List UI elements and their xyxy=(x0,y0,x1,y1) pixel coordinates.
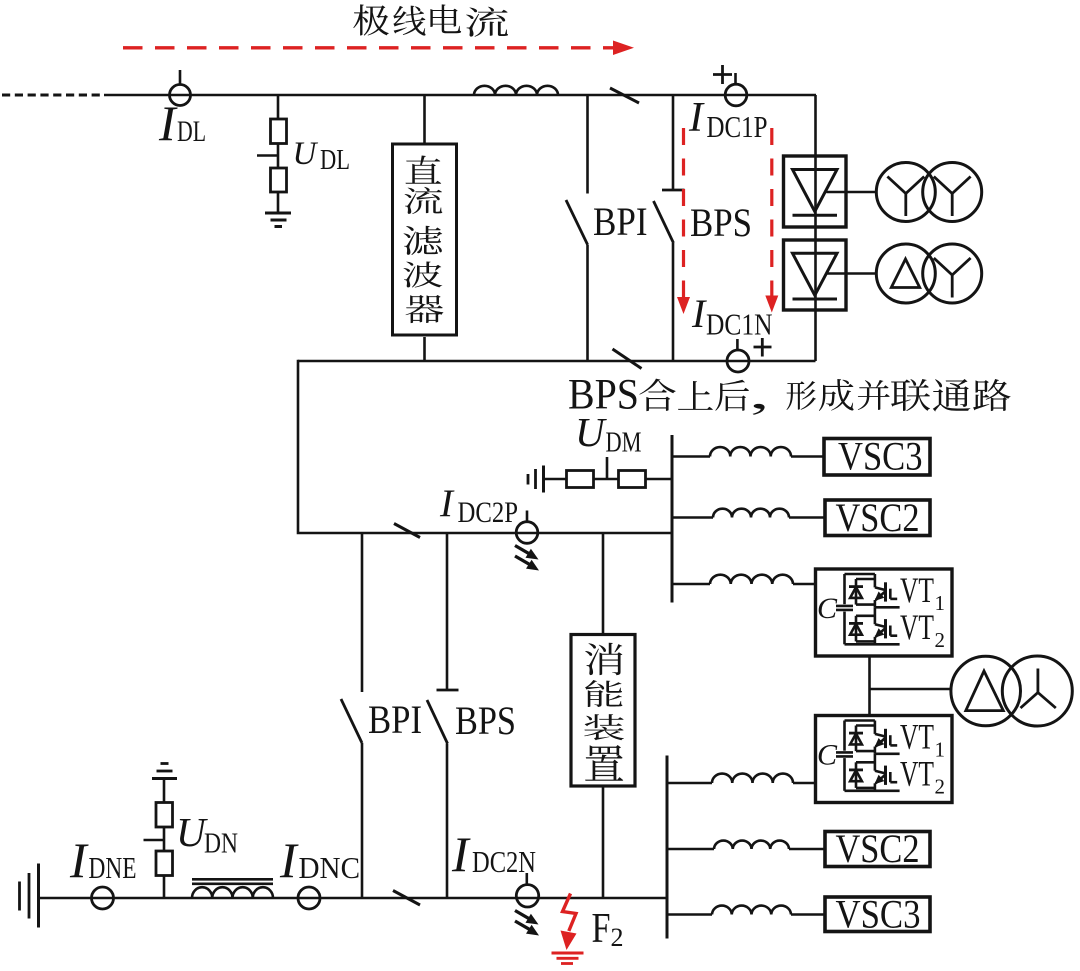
svg-text:VT: VT xyxy=(900,753,934,793)
label VT2 (lower) xyxy=(900,753,945,798)
svg-text:DC1P: DC1P xyxy=(707,109,768,144)
wire: converter DC pole vertical xyxy=(814,95,817,361)
svg-text:BPI: BPI xyxy=(593,199,648,244)
label IDC2N xyxy=(451,826,536,882)
svg-text:I: I xyxy=(158,95,178,151)
label BPS lower xyxy=(455,698,516,743)
svg-text:VSC2: VSC2 xyxy=(836,826,920,871)
phase reactor to VSC2 (lower) xyxy=(667,841,825,849)
svg-text:2: 2 xyxy=(935,628,946,652)
converter box VSC3 (upper) xyxy=(824,434,930,479)
red dashed arrow: bypass current path left xyxy=(677,128,690,314)
ground: neutral earth (left-facing) xyxy=(20,864,39,928)
converter transformer T2 (D/Y) xyxy=(876,244,981,303)
svg-text:C: C xyxy=(817,739,838,772)
caption: BPS closed forms parallel path xyxy=(568,372,1011,419)
svg-text:I: I xyxy=(691,291,707,336)
svg-text:DN: DN xyxy=(204,829,238,860)
current transducer IDC2N xyxy=(516,873,538,907)
svg-text:VSC3: VSC3 xyxy=(838,434,923,479)
bus: lower VSC pole xyxy=(666,756,669,939)
switch BPI upper xyxy=(566,95,588,361)
label IDNE xyxy=(69,832,137,888)
ground UDL xyxy=(265,213,291,227)
label BPS upper xyxy=(690,200,752,245)
svg-text:U: U xyxy=(293,136,319,172)
svg-text:VT: VT xyxy=(900,570,934,610)
current transducer IDL xyxy=(170,70,191,106)
disconnector slash (neutral bus) xyxy=(393,891,420,906)
ground UDM (left-facing) xyxy=(528,466,544,493)
label BPI lower xyxy=(368,697,422,742)
switch BPS lower xyxy=(427,533,459,898)
optical sensor arrows IDC2N xyxy=(515,911,539,936)
label IDNC xyxy=(279,832,360,888)
converter box VSC2 (upper) xyxy=(825,495,930,540)
svg-text:DNE: DNE xyxy=(89,850,137,885)
smoothing reactor (top line) xyxy=(474,86,558,95)
capacitor tap UDL xyxy=(257,154,278,157)
DC capacitor C (upper) xyxy=(817,592,853,625)
DC capacitor C (lower) xyxy=(817,739,853,772)
IGBT VT2 with antiparallel diode (upper) xyxy=(849,607,897,644)
svg-text:VT: VT xyxy=(900,607,934,647)
label IDC2P xyxy=(439,482,518,529)
svg-text:U: U xyxy=(575,409,607,455)
smoothing reactor (neutral, iron core) xyxy=(192,879,273,898)
DC rails (lower) xyxy=(845,721,900,791)
svg-text:DNC: DNC xyxy=(299,850,361,885)
wire: neutral bus xyxy=(39,897,668,900)
svg-text:F: F xyxy=(592,906,611,952)
svg-text:VT: VT xyxy=(900,717,934,757)
svg-text:I: I xyxy=(439,482,455,525)
label UDM xyxy=(575,409,642,459)
label UDN xyxy=(176,809,238,860)
svg-text:2: 2 xyxy=(935,774,946,798)
svg-text:1: 1 xyxy=(935,738,946,762)
converter box VSC2 (lower) xyxy=(825,826,930,871)
wire: top DC bus xyxy=(104,94,816,97)
svg-text:BPS: BPS xyxy=(690,200,752,245)
label UDL xyxy=(293,136,351,176)
wire: dissipation device top xyxy=(602,533,605,635)
phase reactor to VT module (lower) xyxy=(667,774,816,783)
svg-text:DM: DM xyxy=(606,428,642,459)
thyristor valve group 2 xyxy=(784,240,847,310)
svg-text:C: C xyxy=(817,592,838,625)
wire: DC pole line dashed continuation xyxy=(2,94,104,97)
label IDC1N xyxy=(691,291,773,342)
energy dissipation device box 消能装置 xyxy=(571,635,635,787)
ground F2 (red) xyxy=(552,953,584,964)
label: pole-line current title 极线电流 xyxy=(353,4,508,36)
current transducer IDC1N with + polarity xyxy=(727,338,772,372)
wire xyxy=(544,478,567,481)
svg-text:1: 1 xyxy=(935,591,946,615)
resistor: UDL divider lower xyxy=(271,168,287,213)
svg-text:DC1N: DC1N xyxy=(706,307,773,342)
current transducer IDC2P xyxy=(516,511,538,544)
current transducer IDC1P with + polarity xyxy=(713,65,747,106)
svg-text:BPS: BPS xyxy=(455,698,516,743)
label VT1 (lower) xyxy=(900,717,945,762)
fault F2: red lightning bolt to ground xyxy=(561,894,577,951)
wire: left link of middle loop xyxy=(298,360,672,533)
label VT2 (upper) xyxy=(900,607,945,652)
svg-text:2: 2 xyxy=(611,923,624,952)
phase reactor to VT module (upper) xyxy=(672,575,816,584)
resistor UDN upper xyxy=(156,779,173,828)
IGBT VT2 with antiparallel diode (lower) xyxy=(849,754,897,791)
phase reactor to VSC3 (lower) xyxy=(667,906,825,915)
wire: DC filter to bottom bus xyxy=(423,337,426,361)
wire + voltage tap UDM xyxy=(594,457,619,479)
disconnector slash (top line) xyxy=(610,88,639,103)
bus: upper VSC pole xyxy=(671,435,674,603)
label IDC1P xyxy=(688,95,768,144)
svg-text:VSC2: VSC2 xyxy=(836,495,920,540)
wire: UDL divider tap xyxy=(277,95,280,119)
svg-text:VSC3: VSC3 xyxy=(836,892,921,937)
svg-text:I: I xyxy=(688,95,705,141)
resistor UDM left xyxy=(567,471,594,488)
disconnector slash (mid bus) xyxy=(394,524,420,538)
wire: LCC bottom bus xyxy=(298,360,816,363)
wire: valve 1 to transformer T1 xyxy=(827,191,877,194)
wire xyxy=(646,478,673,481)
svg-text:DC2P: DC2P xyxy=(458,496,519,529)
svg-text:DL: DL xyxy=(177,115,206,148)
disconnector slash (LCC bottom bus) xyxy=(613,349,642,369)
resistor UDN lower xyxy=(156,851,173,898)
wire: dissipation device bottom xyxy=(602,786,605,898)
IGBT VT1 with antiparallel diode (lower) xyxy=(849,721,897,754)
phase reactor to VSC3 (upper) xyxy=(672,447,824,456)
label BPI upper xyxy=(593,199,648,244)
thyristor valve group 1 xyxy=(784,156,847,227)
current transducer IDNE xyxy=(92,887,114,909)
VSC valve module box (upper) xyxy=(816,569,953,656)
wire: phase link between VT modules xyxy=(870,656,952,716)
resistor: UDL divider upper xyxy=(271,119,287,168)
wire: valve 2 to transformer T2 xyxy=(827,272,877,275)
switch BPI lower xyxy=(341,533,362,898)
phase reactor to VSC2 (upper) xyxy=(672,509,825,518)
converter box VSC3 (lower) xyxy=(825,892,930,937)
transformer T3 (D/Y) xyxy=(951,656,1072,726)
svg-text:I: I xyxy=(69,832,89,888)
IGBT VT1 with antiparallel diode (upper) xyxy=(849,574,897,607)
wire: DC filter tap xyxy=(423,95,426,144)
label IDL xyxy=(158,95,206,151)
current transducer IDNC xyxy=(298,887,320,909)
label F2 xyxy=(592,906,624,952)
optical sensor arrows IDC2P xyxy=(515,546,539,571)
ground UDN (top) xyxy=(152,764,177,779)
DC rails (upper) xyxy=(845,574,900,644)
DC filter box 直流滤波器 xyxy=(393,144,457,335)
label VT1 (upper) xyxy=(900,570,945,615)
red dashed arrow: bypass current path right xyxy=(765,128,778,313)
svg-text:I: I xyxy=(451,826,471,882)
capacitor tap UDN xyxy=(144,827,165,851)
resistor UDM right xyxy=(619,471,646,488)
red dashed current-direction arrow (pole line current) xyxy=(123,41,634,56)
switch BPS upper xyxy=(654,95,685,361)
svg-text:I: I xyxy=(279,832,299,888)
svg-text:DL: DL xyxy=(320,145,350,176)
svg-text:BPI: BPI xyxy=(368,697,422,742)
converter transformer T1 (Y/Y) xyxy=(876,163,981,222)
VSC valve module box (lower) xyxy=(816,716,953,803)
